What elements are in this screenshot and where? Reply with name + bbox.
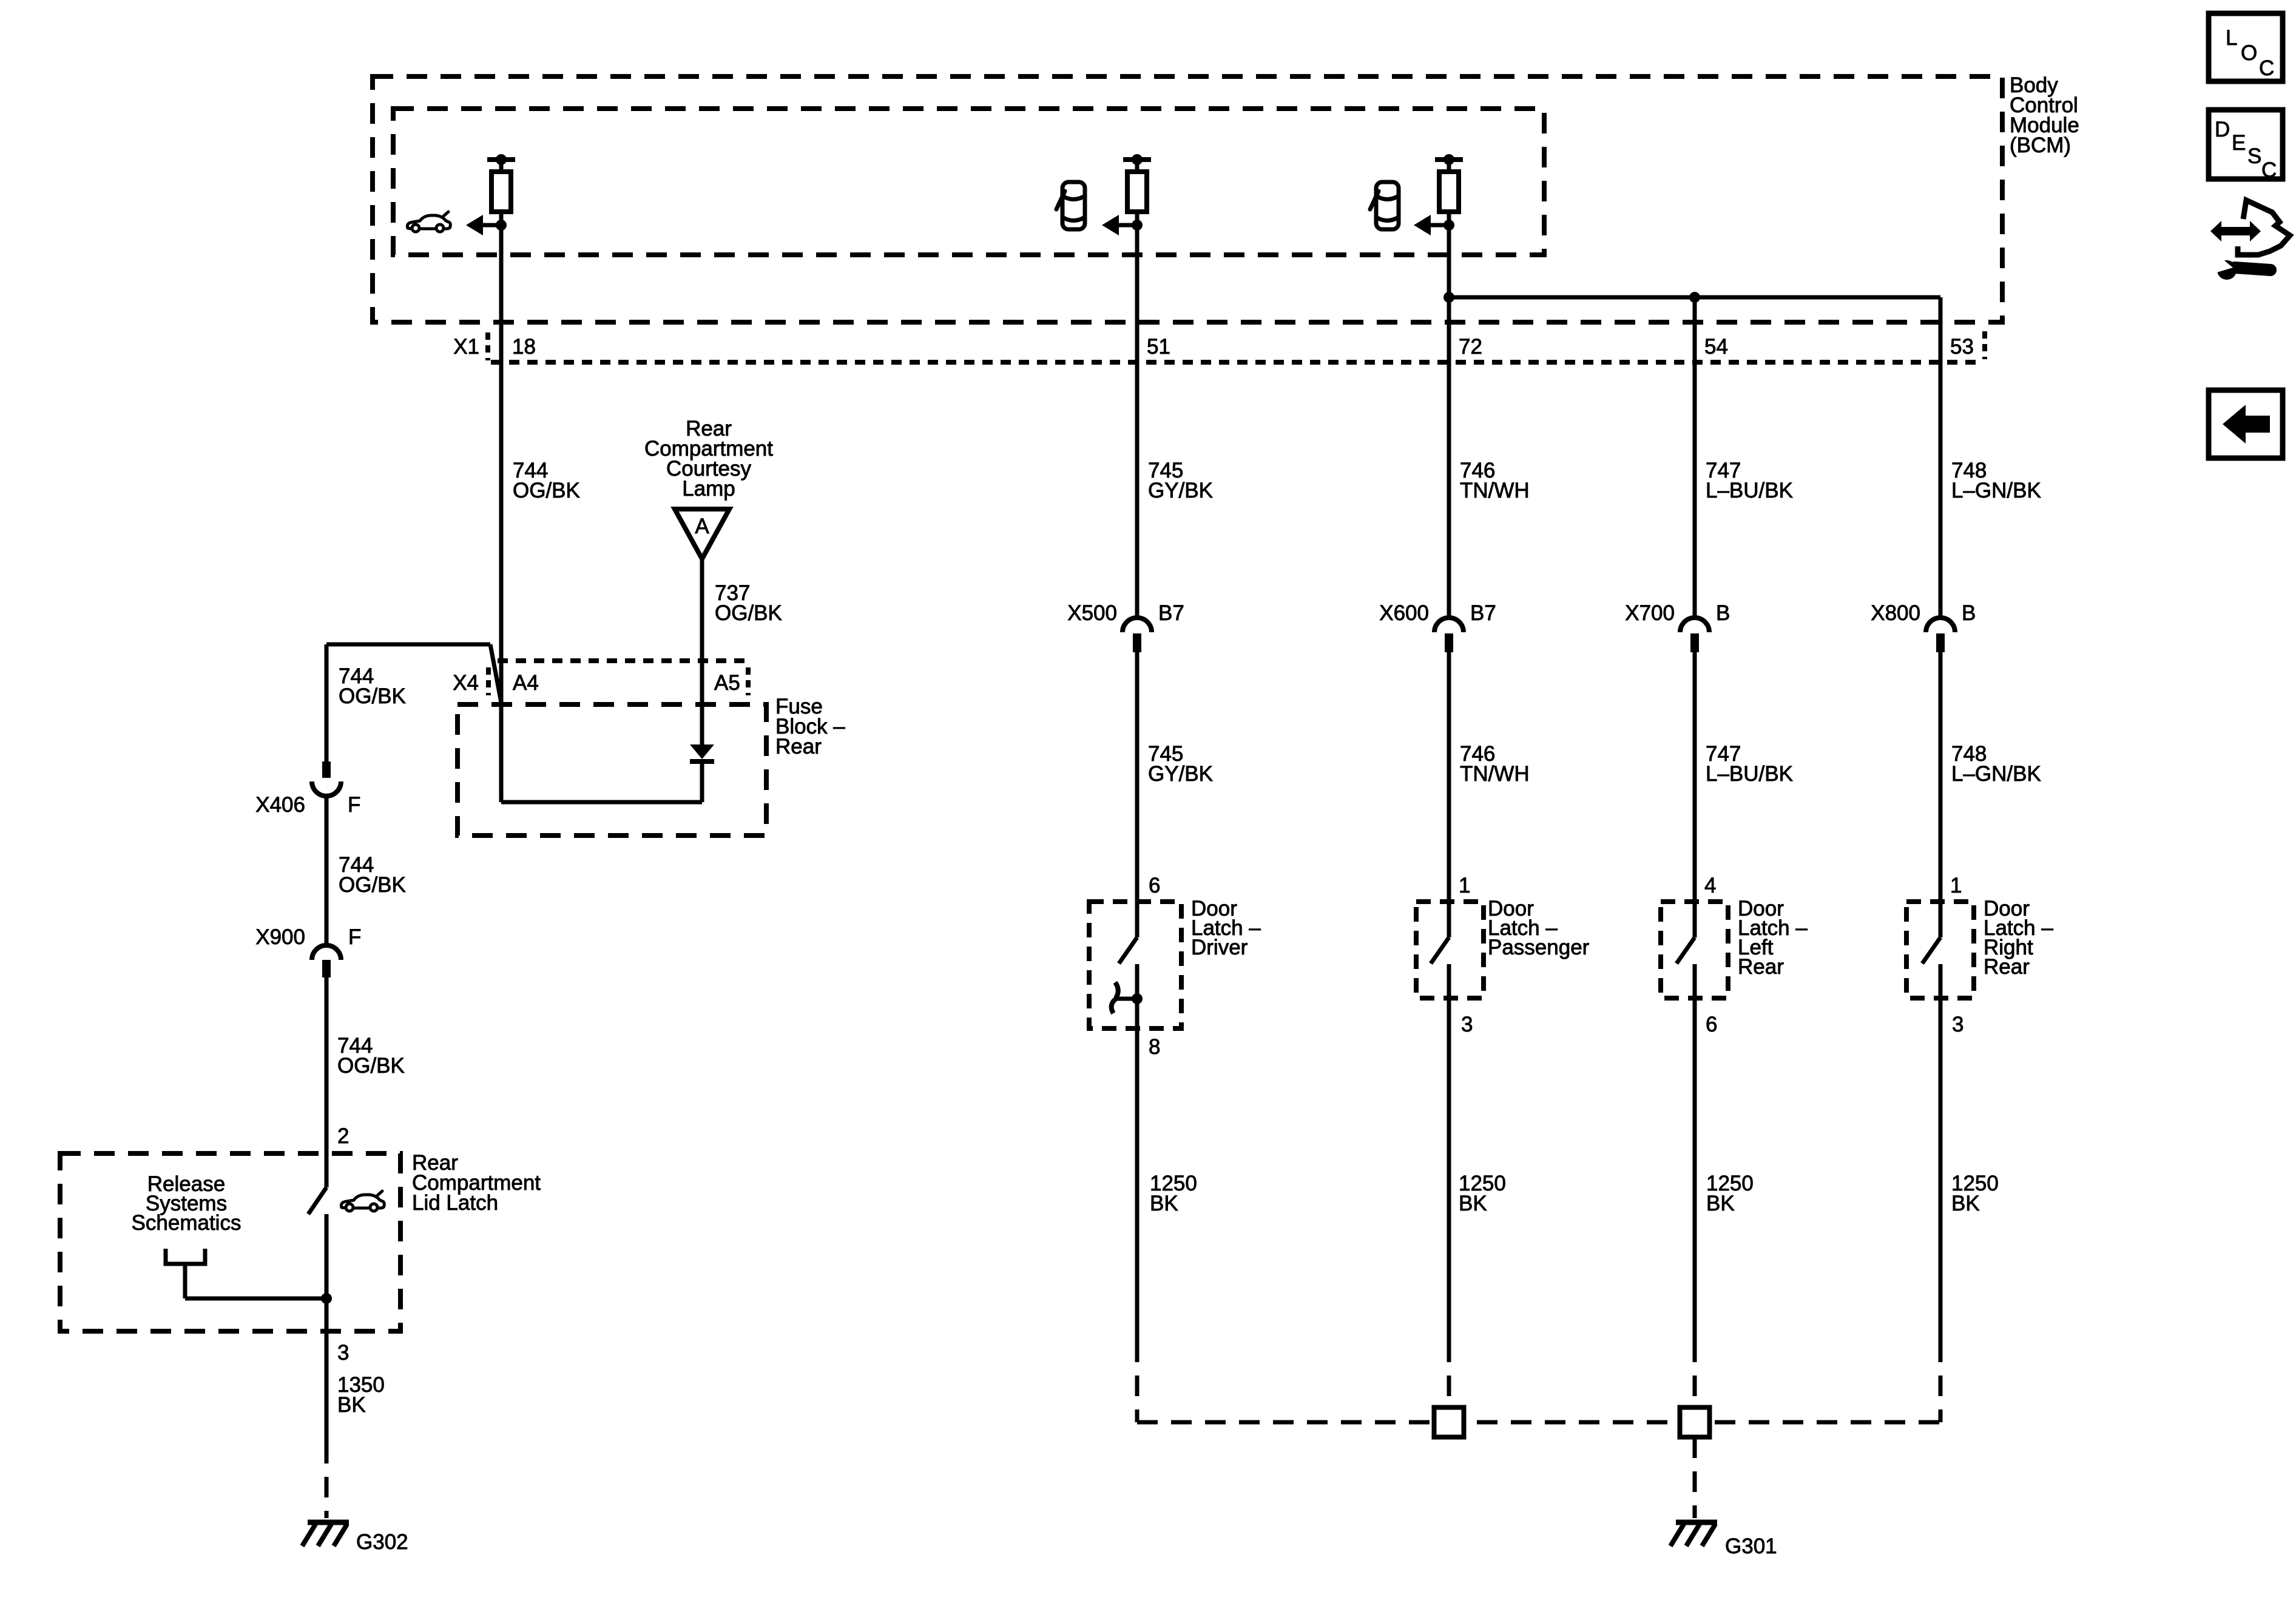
- svg-text:TN/WH: TN/WH: [1460, 479, 1530, 502]
- svg-text:OG/BK: OG/BK: [339, 684, 406, 708]
- svg-text:53: 53: [1950, 335, 1974, 359]
- wire: dashed left rear to ground bus: [1693, 1342, 1697, 1409]
- labels X800 / B: [1871, 601, 1976, 625]
- wire: BCM pin 18 to fuse block A4 (744 OG/BK): [499, 225, 504, 802]
- node: junction at pin 72 branch: [1443, 292, 1454, 303]
- wire: dashed passenger to ground bus: [1447, 1342, 1451, 1409]
- svg-text:TN/WH: TN/WH: [1460, 762, 1530, 786]
- label: wire 748 L-GN/BK (top): [1951, 459, 2041, 502]
- wire: passenger latch pin 3 down: [1447, 964, 1451, 1342]
- label: Door Latch - Left Rear: [1738, 897, 1808, 979]
- svg-text:L–BU/BK: L–BU/BK: [1706, 479, 1793, 502]
- label: wire 747 L-BU/BK (top): [1706, 459, 1793, 502]
- svg-text:3: 3: [1952, 1013, 1963, 1036]
- svg-text:Rear: Rear: [1984, 955, 2030, 979]
- label: wire 744 OG/BK (above X900): [339, 853, 406, 897]
- label: wire 737 OG/BK: [715, 581, 782, 625]
- wire: diagonal joint into fuse block A4: [490, 644, 501, 703]
- pin label 2: [337, 1124, 349, 1148]
- label: wire 1250 BK (driver): [1150, 1172, 1197, 1215]
- switch: door latch left rear: [1676, 937, 1695, 964]
- wire: dashed right rear to ground bus: [1939, 1342, 1943, 1422]
- resistor: pull-up, passenger door ajar (pin 72): [1414, 154, 1463, 235]
- svg-text:BK: BK: [1706, 1192, 1735, 1215]
- wire: dashed ground bus to G301: [1137, 1420, 1940, 1425]
- wire: branch 72 node to pin 53 column: [1449, 295, 1940, 300]
- ground G302: [302, 1522, 349, 1546]
- svg-text:BK: BK: [337, 1393, 366, 1417]
- wire: inside fuse block A4 to diode: [501, 759, 702, 802]
- svg-text:X4: X4: [453, 671, 479, 695]
- pin labels X1 / 18 / 51 / 72 / 54 / 53: [453, 335, 1974, 359]
- connector X1 tick right: [1982, 331, 1987, 359]
- wire: driver latch pin 8 down: [1135, 964, 1140, 1342]
- pin label 3 (right rear): [1952, 1013, 1963, 1036]
- pin label 4 (left rear): [1704, 874, 1716, 897]
- Fuse Block - Rear dashed box: [458, 704, 766, 836]
- switch: door latch driver: [1119, 937, 1137, 964]
- label: Rear Compartment Courtesy Lamp: [644, 417, 773, 501]
- svg-text:L–BU/BK: L–BU/BK: [1706, 762, 1793, 786]
- wire: 744 OG/BK to trunk latch branch: [326, 643, 490, 647]
- pin label 1 (right rear): [1950, 874, 1962, 897]
- icon: diagnostic hand with arrow and wrench: [2209, 200, 2290, 280]
- resistor: pull-up, trunk ajar indicator (pin 18): [466, 154, 515, 235]
- svg-text:6: 6: [1706, 1013, 1717, 1036]
- labels X700 / B: [1625, 601, 1730, 625]
- svg-text:L: L: [2226, 26, 2237, 50]
- LOC reference box: [2209, 13, 2283, 81]
- svg-text:1: 1: [1950, 874, 1962, 897]
- label G302: [356, 1530, 408, 1554]
- svg-text:L–GN/BK: L–GN/BK: [1951, 479, 2041, 502]
- svg-text:OG/BK: OG/BK: [337, 1054, 405, 1078]
- label: Body Control Module (BCM): [2010, 73, 2079, 157]
- pin label 3: [337, 1341, 349, 1365]
- DESC reference box: [2209, 110, 2283, 182]
- svg-text:GY/BK: GY/BK: [1148, 479, 1213, 502]
- wire: 744 OG/BK down to X406: [325, 644, 329, 761]
- Door Latch - Passenger dashed box: [1416, 902, 1484, 998]
- label: wire 745 GY/BK (lower): [1148, 742, 1213, 786]
- icon: car with door ajar (BCM input 72): [1370, 182, 1399, 229]
- icon: car with trunk ajar (BCM input 18): [407, 212, 450, 232]
- wire: right rear latch pin 3 down: [1939, 964, 1943, 1342]
- label: wire 744 OG/BK (top): [513, 459, 580, 502]
- pin labels X4 / A4 / A5: [453, 671, 740, 695]
- svg-text:X600: X600: [1379, 601, 1429, 625]
- svg-text:OG/BK: OG/BK: [513, 479, 580, 502]
- switch: door latch passenger: [1431, 937, 1449, 964]
- icon: car trunk (lid latch): [341, 1191, 384, 1211]
- svg-text:X700: X700: [1625, 601, 1675, 625]
- wire: lamp to fuse block A5 (737 OG/BK): [700, 559, 704, 744]
- wire: left rear latch pin 6 down: [1693, 964, 1697, 1342]
- label: wire 748 L-GN/BK (lower): [1951, 742, 2041, 786]
- svg-text:L–GN/BK: L–GN/BK: [1951, 762, 2041, 786]
- svg-text:6: 6: [1149, 874, 1160, 897]
- svg-text:54: 54: [1704, 335, 1728, 359]
- wire: dashed driver to ground bus: [1135, 1342, 1140, 1422]
- bracket: to Release Systems Schematics: [166, 1249, 326, 1298]
- svg-text:X500: X500: [1067, 601, 1117, 625]
- svg-text:72: 72: [1459, 335, 1482, 359]
- wire: pin 53 column down to X800: [1939, 297, 1943, 618]
- label: wire 744 OG/BK (above latch): [337, 1034, 405, 1078]
- label: Fuse Block - Rear: [775, 695, 845, 758]
- BCM inner dashed box (discrete inputs): [393, 109, 1544, 255]
- svg-text:Driver: Driver: [1191, 936, 1248, 959]
- svg-text:8: 8: [1149, 1035, 1160, 1059]
- label: wire 1350 BK: [337, 1373, 385, 1417]
- label: wire 747 L-BU/BK (lower): [1706, 742, 1793, 786]
- svg-text:X1: X1: [453, 335, 479, 359]
- label: wire 746 TN/WH (lower): [1460, 742, 1530, 786]
- label G301: [1725, 1534, 1777, 1558]
- svg-text:BK: BK: [1150, 1192, 1178, 1215]
- svg-text:18: 18: [512, 335, 536, 359]
- label: wire 746 TN/WH (top): [1460, 459, 1530, 502]
- wire: 744 OG/BK X406 to X900: [325, 796, 329, 944]
- svg-text:Rear: Rear: [775, 735, 822, 758]
- splice S1 (passenger): [1434, 1408, 1464, 1437]
- svg-text:OG/BK: OG/BK: [339, 873, 406, 897]
- svg-text:G301: G301: [1725, 1534, 1777, 1558]
- wire: X800 to door latch right rear pin 1: [1939, 652, 1943, 937]
- node: junction driver latch: [1132, 993, 1143, 1004]
- svg-text:G302: G302: [356, 1530, 408, 1554]
- labels X406 / F: [255, 793, 360, 817]
- svg-text:4: 4: [1704, 874, 1716, 897]
- svg-text:2: 2: [337, 1124, 349, 1148]
- connector X4 tick left: [486, 667, 491, 695]
- svg-text:D: D: [2215, 118, 2230, 141]
- svg-text:Rear: Rear: [1738, 955, 1784, 979]
- connector X500 pin B7: [1123, 618, 1152, 652]
- labels X600 / B7: [1379, 601, 1496, 625]
- label: wire 1250 BK (right rear): [1951, 1172, 1999, 1215]
- splice S2 (left rear): [1680, 1408, 1710, 1437]
- labels X900 / F: [255, 925, 361, 949]
- lamp A: courtesy lamp triangle symbol: [675, 509, 729, 559]
- node: junction at pin 54 branch: [1689, 292, 1700, 303]
- Door Latch - Right Rear dashed box: [1906, 902, 1974, 998]
- pin label 3 (passenger): [1461, 1013, 1473, 1036]
- node: junction at latch pin 3 wire: [321, 1293, 332, 1304]
- label: Door Latch - Passenger: [1488, 897, 1590, 959]
- wire: X500 to door latch driver pin 6: [1135, 652, 1140, 937]
- labels X500 / B7: [1067, 601, 1184, 625]
- svg-text:(BCM): (BCM): [2010, 133, 2071, 157]
- label: Rear Compartment Lid Latch: [412, 1151, 541, 1215]
- svg-text:O: O: [2241, 41, 2257, 65]
- svg-text:X406: X406: [255, 793, 305, 817]
- svg-text:C: C: [2259, 56, 2274, 80]
- connector X4 band (dotted): [498, 658, 749, 663]
- latch pawl symbol (driver): [1112, 982, 1137, 1013]
- wire: pin 54 column down to X700: [1693, 297, 1697, 618]
- diode CR: courtesy lamp diode: [690, 744, 714, 761]
- svg-text:1: 1: [1459, 874, 1470, 897]
- icon: car with door ajar (BCM input 51): [1056, 182, 1085, 229]
- wire: BCM pin 72 down to X600 (746 TN/WH): [1447, 225, 1451, 618]
- svg-text:X900: X900: [255, 925, 305, 949]
- label: wire 1250 BK (left rear): [1706, 1172, 1754, 1215]
- connector X1 band (dotted): [491, 360, 1984, 365]
- label: Release Systems Schematics: [132, 1172, 241, 1235]
- wire: X700 to door latch left rear pin 4: [1693, 652, 1697, 937]
- svg-text:BK: BK: [1951, 1192, 1980, 1215]
- wire: dashed to G302: [325, 1443, 329, 1518]
- switch: trunk lid latch switch: [308, 1187, 326, 1214]
- svg-text:GY/BK: GY/BK: [1148, 762, 1213, 786]
- pin label 8 (driver): [1149, 1035, 1160, 1059]
- wire: latch switch to pin 3: [325, 1214, 329, 1443]
- svg-text:Passenger: Passenger: [1488, 936, 1590, 959]
- svg-text:A4: A4: [513, 671, 539, 695]
- pin label 6 (left rear): [1706, 1013, 1717, 1036]
- Door Latch - Left Rear dashed box: [1661, 902, 1728, 998]
- svg-text:3: 3: [1461, 1013, 1473, 1036]
- svg-text:E: E: [2232, 131, 2246, 155]
- svg-text:X800: X800: [1871, 601, 1920, 625]
- svg-text:B: B: [1962, 601, 1976, 625]
- connector X1 tick left: [485, 333, 490, 360]
- ground G301: [1670, 1522, 1717, 1546]
- wire: dashed splice to G301: [1693, 1437, 1697, 1518]
- svg-text:C: C: [2261, 158, 2277, 182]
- Body Control Module (BCM) outer dashed box: [373, 76, 2002, 322]
- svg-text:B7: B7: [1158, 601, 1184, 625]
- svg-text:Lamp: Lamp: [682, 477, 735, 501]
- connector X4 tick right: [746, 667, 751, 695]
- svg-text:Lid Latch: Lid Latch: [412, 1191, 498, 1215]
- resistor: pull-up, driver door ajar (pin 51): [1102, 154, 1151, 235]
- Door Latch - Driver dashed box: [1089, 902, 1181, 1028]
- connector X900 pin F: [312, 945, 341, 977]
- svg-text:Schematics: Schematics: [132, 1211, 241, 1235]
- svg-text:F: F: [348, 793, 360, 817]
- svg-text:B7: B7: [1470, 601, 1496, 625]
- svg-text:BK: BK: [1459, 1192, 1487, 1215]
- label: wire 744 OG/BK (above X406): [339, 664, 406, 708]
- back-arrow navigation box: [2209, 390, 2283, 458]
- connector X800 pin B: [1926, 618, 1955, 652]
- wire: BCM pin 51 down to X500 (745 GY/BK): [1135, 225, 1140, 618]
- label: wire 745 GY/BK (top): [1148, 459, 1213, 502]
- svg-text:S: S: [2247, 144, 2261, 168]
- svg-text:3: 3: [337, 1341, 349, 1365]
- label: wire 1250 BK (passenger): [1459, 1172, 1506, 1215]
- svg-text:A5: A5: [714, 671, 740, 695]
- wire: X600 to door latch passenger pin 1: [1447, 652, 1451, 937]
- svg-text:A: A: [695, 515, 709, 538]
- svg-text:F: F: [348, 925, 361, 949]
- pin label 6 (driver): [1149, 874, 1160, 897]
- label: Door Latch - Right Rear: [1984, 897, 2053, 979]
- connector X406 pin F: [312, 761, 341, 796]
- svg-text:OG/BK: OG/BK: [715, 601, 782, 625]
- Rear Compartment Lid Latch dashed box: [60, 1153, 400, 1331]
- svg-text:51: 51: [1147, 335, 1170, 359]
- connector X700 pin B: [1680, 618, 1709, 652]
- connector X600 pin B7: [1434, 618, 1464, 652]
- svg-text:B: B: [1716, 601, 1730, 625]
- wire: 744 OG/BK X900 to trunk latch pin 2: [325, 977, 329, 1187]
- pin label 1 (passenger): [1459, 874, 1470, 897]
- switch: door latch right rear: [1922, 937, 1940, 964]
- label: Door Latch - Driver: [1191, 897, 1261, 959]
